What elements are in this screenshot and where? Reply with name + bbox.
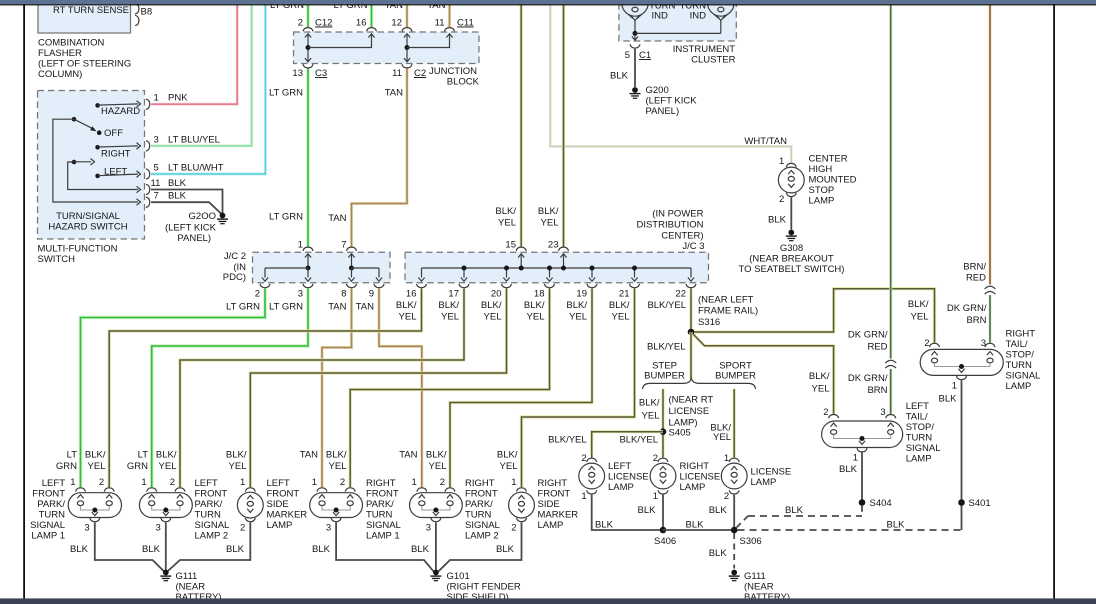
svg-text:YEL: YEL bbox=[612, 312, 630, 323]
svg-text:PARK/: PARK/ bbox=[37, 499, 65, 510]
svg-text:J/C 2: J/C 2 bbox=[224, 251, 246, 262]
svg-text:TURN: TURN bbox=[465, 510, 492, 521]
svg-text:GRN: GRN bbox=[127, 461, 148, 472]
svg-text:YEL: YEL bbox=[429, 461, 447, 472]
svg-text:YEL: YEL bbox=[399, 312, 417, 323]
svg-text:BLK: BLK bbox=[168, 178, 187, 189]
svg-text:MULTI-FUNCTION: MULTI-FUNCTION bbox=[38, 244, 118, 255]
svg-text:1: 1 bbox=[653, 491, 658, 502]
svg-text:LEFT: LEFT bbox=[195, 478, 218, 489]
svg-text:TAN: TAN bbox=[300, 450, 318, 461]
svg-text:HAZARD: HAZARD bbox=[101, 106, 140, 117]
svg-text:PARK/: PARK/ bbox=[195, 499, 223, 510]
license lamp bbox=[729, 458, 739, 462]
svg-text:1: 1 bbox=[952, 381, 957, 392]
svg-text:YEL: YEL bbox=[812, 384, 830, 395]
svg-text:IND: IND bbox=[652, 11, 669, 22]
svg-text:(NEAR LEFT: (NEAR LEFT bbox=[698, 295, 754, 306]
svg-text:BLK: BLK bbox=[785, 505, 804, 516]
left license lamp bbox=[587, 458, 597, 462]
switch contact HAZARD bbox=[95, 103, 100, 108]
svg-text:2: 2 bbox=[924, 338, 929, 349]
svg-text:YEL: YEL bbox=[88, 461, 106, 472]
switch pins 1,3,5,11,7 bbox=[146, 99, 150, 109]
svg-text:PNK: PNK bbox=[168, 93, 188, 104]
svg-text:STOP/: STOP/ bbox=[906, 422, 935, 433]
svg-text:LT GRN: LT GRN bbox=[226, 302, 260, 313]
svg-text:PARK/: PARK/ bbox=[366, 499, 394, 510]
splice S316 (near left frame rail) bbox=[688, 329, 695, 336]
svg-text:PDC): PDC) bbox=[223, 272, 246, 283]
svg-text:S306: S306 bbox=[740, 536, 762, 547]
wire BLK right tail pin1 to S401 bbox=[961, 380, 963, 530]
multi-function switch box TURN/SIGNAL HAZARD SWITCH bbox=[38, 91, 145, 240]
svg-text:DK GRN/: DK GRN/ bbox=[848, 373, 888, 384]
svg-text:SIGNAL: SIGNAL bbox=[195, 520, 230, 531]
J/C2 internals bbox=[305, 254, 311, 258]
svg-text:1: 1 bbox=[70, 477, 75, 488]
svg-text:FRONT: FRONT bbox=[366, 489, 399, 500]
svg-text:J/C 3: J/C 3 bbox=[682, 241, 704, 252]
svg-text:FRAME RAIL): FRAME RAIL) bbox=[698, 306, 758, 317]
junction connector J/C 3 box bbox=[405, 252, 709, 283]
ground G111 (near battery) right bbox=[731, 570, 737, 576]
svg-text:1: 1 bbox=[853, 453, 858, 464]
svg-text:RIGHT: RIGHT bbox=[366, 478, 396, 489]
svg-text:CENTER): CENTER) bbox=[661, 231, 703, 242]
svg-text:3: 3 bbox=[298, 289, 303, 300]
svg-text:BLK: BLK bbox=[70, 544, 89, 555]
top bar bbox=[0, 0, 1096, 4]
wire LT GRN J/C2-3 to left front park lamp 2 pin 1 bbox=[152, 288, 308, 487]
left front side marker lamp bbox=[245, 488, 255, 492]
svg-text:TURN: TURN bbox=[366, 510, 393, 521]
J/C3 internal bus bbox=[422, 267, 692, 269]
svg-text:LT: LT bbox=[67, 450, 78, 461]
svg-text:LICENSE: LICENSE bbox=[669, 406, 710, 417]
svg-text:LAMP: LAMP bbox=[751, 477, 777, 488]
svg-text:BLK/: BLK/ bbox=[326, 450, 347, 461]
svg-text:LEFT: LEFT bbox=[267, 478, 290, 489]
svg-text:TAN: TAN bbox=[385, 88, 403, 99]
svg-text:2: 2 bbox=[653, 453, 658, 464]
svg-text:GRN: GRN bbox=[56, 461, 77, 472]
svg-text:13: 13 bbox=[292, 68, 303, 79]
svg-text:G111: G111 bbox=[744, 571, 766, 582]
svg-text:LT GRN: LT GRN bbox=[269, 88, 303, 99]
wire DK GRN/RED from top bbox=[889, 5, 892, 359]
svg-text:(IN POWER: (IN POWER bbox=[652, 209, 703, 220]
svg-text:COLUMN): COLUMN) bbox=[38, 69, 82, 80]
svg-text:BLK: BLK bbox=[168, 191, 187, 202]
svg-text:TAN: TAN bbox=[328, 302, 346, 313]
wire BLK/YEL into J/C3 pin 23 bbox=[562, 5, 565, 247]
wire BLK/YEL brace to license lamp pin 1 bbox=[733, 389, 736, 458]
svg-text:TO SEATBELT SWITCH): TO SEATBELT SWITCH) bbox=[739, 264, 845, 275]
wire BLK left marker pin 2 to G111 bbox=[168, 522, 251, 571]
svg-text:LAMP: LAMP bbox=[809, 196, 835, 207]
svg-text:22: 22 bbox=[675, 289, 686, 300]
svg-text:YEL: YEL bbox=[329, 461, 347, 472]
svg-text:YEL: YEL bbox=[642, 411, 660, 422]
svg-text:LT: LT bbox=[138, 450, 149, 461]
svg-text:LAMP: LAMP bbox=[538, 520, 564, 531]
svg-text:OFF: OFF bbox=[104, 128, 123, 139]
svg-text:BLK/: BLK/ bbox=[438, 300, 459, 311]
splice S404 bbox=[859, 499, 866, 506]
svg-text:C2: C2 bbox=[414, 68, 426, 79]
svg-text:(NEAR RT: (NEAR RT bbox=[669, 395, 714, 406]
svg-text:SIGNAL: SIGNAL bbox=[1006, 371, 1041, 382]
ground G200 (left kick panel) bbox=[632, 87, 638, 93]
svg-text:BLK/: BLK/ bbox=[85, 450, 106, 461]
svg-text:(RIGHT FENDER: (RIGHT FENDER bbox=[447, 582, 521, 593]
wire LT GRN into junction block pin 2 bbox=[306, 5, 309, 27]
svg-text:STOP/: STOP/ bbox=[1006, 350, 1035, 361]
svg-text:BLK: BLK bbox=[709, 548, 728, 559]
svg-text:C11: C11 bbox=[457, 18, 474, 29]
wire TAN junction block 11 to J/C2 pin 7 bbox=[352, 69, 408, 247]
svg-text:YEL: YEL bbox=[159, 461, 177, 472]
svg-text:C1: C1 bbox=[639, 50, 651, 61]
ground G111 (near battery) left bbox=[163, 570, 169, 576]
svg-text:FRONT: FRONT bbox=[538, 489, 571, 500]
svg-text:1: 1 bbox=[154, 93, 159, 104]
wire BLK/YEL into J/C3 pin 15 bbox=[520, 5, 523, 247]
svg-text:HIGH: HIGH bbox=[809, 164, 833, 175]
right front side marker lamp bbox=[517, 488, 527, 492]
svg-text:YEL: YEL bbox=[229, 461, 247, 472]
svg-text:IND: IND bbox=[690, 11, 707, 22]
wire BLK/YEL J/C3-20 to left front side marker pin 1 bbox=[250, 288, 506, 487]
svg-text:BLK: BLK bbox=[595, 520, 614, 531]
svg-text:FRONT: FRONT bbox=[267, 489, 300, 500]
svg-text:2: 2 bbox=[240, 523, 245, 534]
ground G101 (right fender side shield) bbox=[433, 570, 439, 576]
svg-text:FRONT: FRONT bbox=[195, 489, 228, 500]
svg-text:LT BLU/YEL: LT BLU/YEL bbox=[168, 134, 220, 145]
wire TAN into junction block pin 11 bbox=[448, 5, 451, 27]
wire BLK right lamp 1 pin 3 to G101 bbox=[336, 522, 433, 571]
svg-text:1: 1 bbox=[240, 477, 245, 488]
wire BLK left tail pin1 to S404 bbox=[861, 453, 863, 503]
svg-text:BLK/: BLK/ bbox=[524, 300, 545, 311]
svg-text:BLK: BLK bbox=[496, 544, 515, 555]
svg-text:3: 3 bbox=[84, 523, 89, 534]
svg-text:16: 16 bbox=[406, 289, 417, 300]
wire BLK/YEL S316 to right tail lamp pin 2 bbox=[694, 289, 935, 343]
svg-text:3: 3 bbox=[880, 407, 885, 418]
svg-text:CLUSTER: CLUSTER bbox=[691, 55, 735, 66]
wire BLK left lamp 1 pin 3 to G111 bbox=[95, 522, 164, 571]
svg-text:RED: RED bbox=[867, 342, 887, 353]
svg-text:1: 1 bbox=[581, 491, 586, 502]
wire BLK stop lamp to G308 bbox=[790, 197, 792, 229]
svg-text:19: 19 bbox=[576, 289, 587, 300]
wire BLK/YEL S405 to left license lamp bbox=[592, 432, 663, 458]
wire BLK/YEL J/C3-22 to splice S316 bbox=[689, 288, 692, 332]
page left border bbox=[23, 4, 25, 599]
svg-text:BLK: BLK bbox=[686, 520, 705, 531]
wire BLK right marker pin 2 to G101 bbox=[439, 522, 522, 571]
svg-text:YEL: YEL bbox=[500, 461, 518, 472]
turn indicator lamp right bbox=[708, 0, 734, 16]
svg-text:FRONT: FRONT bbox=[32, 489, 65, 500]
svg-text:2: 2 bbox=[581, 453, 586, 464]
svg-text:BLK/: BLK/ bbox=[426, 450, 447, 461]
svg-text:1: 1 bbox=[724, 453, 729, 464]
svg-text:TURN: TURN bbox=[39, 510, 66, 521]
svg-text:BLK: BLK bbox=[142, 544, 161, 555]
wire BLK/YEL S316 to bumper brace bbox=[689, 332, 692, 379]
svg-text:LAMP 2: LAMP 2 bbox=[465, 531, 499, 542]
svg-text:3: 3 bbox=[156, 523, 161, 534]
svg-text:LAMP: LAMP bbox=[267, 520, 293, 531]
svg-text:S404: S404 bbox=[870, 498, 892, 509]
svg-text:(LEFT KICK: (LEFT KICK bbox=[165, 223, 217, 234]
svg-text:PANEL): PANEL) bbox=[646, 106, 680, 117]
svg-text:BLK: BLK bbox=[610, 71, 629, 82]
step/sport bumper brace bbox=[643, 378, 756, 389]
wire BLK license pin2 to S306 bbox=[733, 495, 735, 530]
svg-text:LAMP: LAMP bbox=[608, 482, 634, 493]
cluster internal bus bbox=[633, 31, 638, 36]
svg-text:2: 2 bbox=[99, 477, 104, 488]
splice S306 bbox=[731, 527, 738, 534]
page right border bbox=[1053, 4, 1055, 599]
wire BLK S406 to S306 bbox=[663, 529, 734, 531]
switch pivot and wiper to OFF bbox=[72, 117, 77, 122]
wire LT GRN J/C2-2 to left front park lamp 1 pin 1 bbox=[81, 288, 266, 487]
svg-text:LICENSE: LICENSE bbox=[608, 472, 649, 483]
wire BLK pin 7 to G2OO bbox=[151, 202, 222, 214]
svg-text:JUNCTION: JUNCTION bbox=[429, 66, 477, 77]
svg-text:BLK: BLK bbox=[709, 505, 728, 516]
svg-text:MARKER: MARKER bbox=[538, 510, 579, 521]
svg-text:SIDE: SIDE bbox=[538, 499, 560, 510]
svg-text:BUMPER: BUMPER bbox=[644, 370, 685, 381]
svg-text:7: 7 bbox=[341, 239, 346, 250]
ground G308 (near breakout to seatbelt switch) bbox=[788, 230, 794, 236]
svg-text:COMBINATION: COMBINATION bbox=[38, 38, 104, 49]
svg-text:(LEFT OF STEERING: (LEFT OF STEERING bbox=[38, 59, 131, 70]
wire BLK/YEL J/C3-21 to right front side marker pin 1 bbox=[522, 288, 635, 487]
svg-text:2: 2 bbox=[779, 194, 784, 205]
splice S401 bbox=[958, 499, 965, 506]
svg-text:3: 3 bbox=[981, 338, 986, 349]
wire TAN J/C2-9 to right front park lamp 2 pin 1 bbox=[379, 288, 422, 487]
svg-text:PARK/: PARK/ bbox=[465, 499, 493, 510]
svg-text:LAMP 2: LAMP 2 bbox=[195, 531, 229, 542]
left front park/turn signal lamp 2 bbox=[147, 488, 157, 492]
svg-text:2: 2 bbox=[440, 477, 445, 488]
svg-text:RIGHT: RIGHT bbox=[1006, 329, 1036, 340]
svg-text:YEL: YEL bbox=[911, 312, 929, 323]
svg-text:TAN: TAN bbox=[356, 302, 374, 313]
switch pivot LEFT arm bbox=[72, 160, 77, 165]
junction connector J/C 2 box bbox=[253, 252, 391, 283]
svg-text:BLOCK: BLOCK bbox=[447, 77, 480, 88]
svg-text:BLK: BLK bbox=[226, 544, 245, 555]
junction block internals bbox=[307, 34, 309, 62]
svg-text:TAN: TAN bbox=[328, 213, 346, 224]
svg-text:BLK/YEL: BLK/YEL bbox=[647, 342, 686, 353]
svg-text:LT GRN: LT GRN bbox=[269, 302, 303, 313]
svg-text:RIGHT: RIGHT bbox=[680, 461, 710, 472]
svg-text:1: 1 bbox=[298, 239, 303, 250]
svg-text:3: 3 bbox=[326, 523, 331, 534]
wire BLK right lamp 2 pin 3 to G101 bbox=[435, 522, 437, 570]
wire PNK pin 1 bbox=[151, 5, 237, 104]
svg-text:(NEAR: (NEAR bbox=[744, 582, 774, 593]
svg-text:7: 7 bbox=[154, 191, 159, 202]
switch contact OFF bbox=[97, 130, 102, 135]
wire LT GRN into junction block pin 16 bbox=[370, 5, 373, 27]
svg-text:C3: C3 bbox=[315, 68, 327, 79]
svg-text:STOP: STOP bbox=[809, 185, 835, 196]
svg-text:RT TURN SENSE: RT TURN SENSE bbox=[53, 5, 129, 16]
svg-text:1: 1 bbox=[779, 156, 784, 167]
svg-text:BLK/: BLK/ bbox=[396, 300, 417, 311]
svg-text:BLK/: BLK/ bbox=[481, 300, 502, 311]
svg-text:(LEFT KICK: (LEFT KICK bbox=[646, 96, 698, 107]
wire BLK/YEL J/C3-19 to right front park lamp 2 pin 2 bbox=[450, 288, 592, 487]
wire BLK/YEL J/C3-17 to left front park lamp 2 pin 2 bbox=[180, 288, 464, 487]
wire BRN/RED from top bbox=[989, 5, 992, 285]
svg-text:BRN/: BRN/ bbox=[963, 262, 986, 273]
svg-text:G101: G101 bbox=[447, 571, 470, 582]
junction block box bbox=[294, 32, 480, 64]
svg-text:BLK/: BLK/ bbox=[495, 206, 516, 217]
svg-text:BLK/YEL: BLK/YEL bbox=[548, 435, 587, 446]
wire BLK right license pin1 to S406 bbox=[662, 495, 664, 530]
svg-text:WHT/TAN: WHT/TAN bbox=[744, 136, 787, 147]
svg-text:YEL: YEL bbox=[484, 312, 502, 323]
svg-text:BLK/YEL: BLK/YEL bbox=[647, 300, 686, 311]
svg-text:LAMP: LAMP bbox=[680, 482, 706, 493]
svg-text:SIGNAL: SIGNAL bbox=[366, 520, 401, 531]
wire DK GRN/BRN to right tail pin 3 bbox=[989, 295, 992, 343]
svg-text:BLK/: BLK/ bbox=[497, 450, 518, 461]
svg-text:BLK/YEL: BLK/YEL bbox=[619, 435, 658, 446]
svg-text:9: 9 bbox=[369, 289, 374, 300]
wire BLK pin 11 to G2OO bbox=[151, 190, 223, 215]
svg-text:3: 3 bbox=[154, 134, 159, 145]
svg-text:11: 11 bbox=[435, 18, 445, 29]
wire BLK/YEL J/C3-16 to left front park lamp 1 pin 2 bbox=[109, 288, 421, 487]
svg-text:LEFT: LEFT bbox=[608, 461, 631, 472]
right front park/turn signal lamp 2 bbox=[417, 488, 427, 492]
svg-text:(NEAR: (NEAR bbox=[176, 582, 206, 593]
svg-text:CENTER: CENTER bbox=[809, 154, 848, 165]
svg-text:YEL: YEL bbox=[569, 312, 587, 323]
svg-text:LT BLU/WHT: LT BLU/WHT bbox=[168, 163, 224, 174]
wire TAN J/C2-8 to right front park lamp 1 pin 1 bbox=[322, 288, 352, 487]
svg-text:YEL: YEL bbox=[541, 218, 559, 229]
svg-text:2: 2 bbox=[340, 477, 345, 488]
svg-text:BLK/: BLK/ bbox=[809, 371, 830, 382]
wire BLK left lamp 2 pin 3 to G111 bbox=[165, 522, 167, 570]
wire BLK dashed S306 to S401 branch bbox=[738, 529, 961, 531]
svg-text:3: 3 bbox=[426, 523, 431, 534]
svg-text:YEL: YEL bbox=[713, 432, 731, 443]
svg-text:LAMP: LAMP bbox=[1006, 381, 1032, 392]
wire BLK cluster to G200 bbox=[634, 49, 636, 87]
break DK GRN/RED to DK GRN/BRN bbox=[885, 360, 896, 363]
wire LT GRN junction block 13 to J/C2 pin 1 bbox=[306, 69, 309, 247]
svg-text:YEL: YEL bbox=[498, 218, 516, 229]
wire BLK dashed S306 to G111 bbox=[733, 533, 735, 569]
svg-text:SIGNAL: SIGNAL bbox=[906, 443, 941, 454]
svg-text:G2OO: G2OO bbox=[189, 211, 216, 222]
svg-text:BLK/: BLK/ bbox=[538, 206, 559, 217]
svg-text:BLK/: BLK/ bbox=[226, 450, 247, 461]
svg-text:RIGHT: RIGHT bbox=[101, 149, 131, 160]
svg-text:5: 5 bbox=[154, 163, 159, 174]
svg-text:S401: S401 bbox=[969, 498, 991, 509]
svg-text:2: 2 bbox=[255, 289, 260, 300]
break BRN/RED to DK GRN/BRN bbox=[985, 286, 996, 289]
svg-text:LICENSE: LICENSE bbox=[680, 472, 721, 483]
svg-text:YEL: YEL bbox=[441, 312, 459, 323]
svg-text:LAMP: LAMP bbox=[906, 454, 932, 465]
svg-text:15: 15 bbox=[505, 239, 516, 250]
wire BLK/YEL J/C3-18 to right front park lamp 1 pin 2 bbox=[350, 288, 549, 487]
switch contact LEFT bbox=[95, 174, 100, 179]
svg-text:FLASHER: FLASHER bbox=[38, 48, 82, 59]
svg-text:HAZARD SWITCH: HAZARD SWITCH bbox=[48, 222, 127, 233]
svg-text:20: 20 bbox=[491, 289, 502, 300]
svg-text:BLK/: BLK/ bbox=[156, 450, 177, 461]
combination flasher box RT TURN SENSE bbox=[38, 0, 131, 33]
svg-text:G308: G308 bbox=[780, 243, 803, 254]
svg-text:LEFT: LEFT bbox=[906, 401, 929, 412]
svg-text:S406: S406 bbox=[654, 536, 676, 547]
splice S405 (near rt license lamp) bbox=[660, 428, 667, 435]
svg-text:2: 2 bbox=[724, 491, 729, 502]
svg-text:TURN: TURN bbox=[906, 433, 933, 444]
bottom bar bbox=[0, 598, 1096, 604]
svg-text:11: 11 bbox=[151, 178, 161, 189]
right license lamp bbox=[658, 458, 668, 462]
svg-text:BLK: BLK bbox=[887, 520, 906, 531]
svg-text:SIDE: SIDE bbox=[267, 499, 289, 510]
svg-text:11: 11 bbox=[392, 68, 402, 79]
left front park/turn signal lamp 1 bbox=[76, 488, 86, 492]
switch contact RIGHT bbox=[95, 145, 100, 150]
J/C2 pins bottom 2 3 8 9 bbox=[260, 284, 270, 288]
wire BLK dashed S404 down bbox=[861, 506, 863, 516]
svg-text:17: 17 bbox=[448, 289, 459, 300]
svg-text:C12: C12 bbox=[315, 18, 332, 29]
svg-text:1: 1 bbox=[412, 477, 417, 488]
instrument cluster box bbox=[619, 0, 736, 41]
svg-text:BLK: BLK bbox=[638, 505, 657, 516]
turn indicator lamp left bbox=[622, 0, 648, 16]
svg-text:BLK: BLK bbox=[839, 464, 858, 475]
J/C3 pins bottom bbox=[417, 284, 427, 288]
right front park/turn signal lamp 1 bbox=[317, 488, 327, 492]
svg-text:BLK: BLK bbox=[939, 394, 958, 405]
svg-text:1: 1 bbox=[141, 477, 146, 488]
svg-text:(NEAR BREAKOUT: (NEAR BREAKOUT bbox=[749, 254, 834, 265]
svg-text:TURN: TURN bbox=[195, 510, 222, 521]
svg-text:BLK/: BLK/ bbox=[639, 398, 660, 409]
svg-text:MARKER: MARKER bbox=[267, 510, 308, 521]
svg-text:LT GRN: LT GRN bbox=[269, 212, 303, 223]
svg-text:BUMPER: BUMPER bbox=[715, 370, 756, 381]
svg-text:BLK/: BLK/ bbox=[609, 300, 630, 311]
